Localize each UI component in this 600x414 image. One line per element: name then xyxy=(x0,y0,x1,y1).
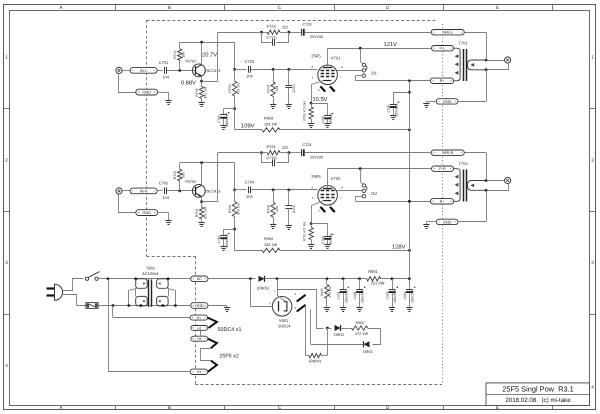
connector NFB-R xyxy=(431,150,464,155)
svg-text:2SC1413: 2SC1413 xyxy=(205,189,221,193)
wire AC to rectifier xyxy=(208,278,256,280)
connector IN-R xyxy=(130,188,157,194)
node optional cap tap xyxy=(287,68,290,71)
svg-text:J12: J12 xyxy=(371,191,378,196)
node feedback left xyxy=(260,151,263,154)
node grid resistor tap xyxy=(272,189,275,192)
wire NFB-R to feedback network xyxy=(305,152,431,154)
svg-text:25F5: 25F5 xyxy=(311,174,321,179)
node heater feed neutral xyxy=(112,304,115,307)
wire C701 to base xyxy=(167,70,196,72)
filter rail wire xyxy=(327,278,367,280)
svg-text:R709 471 1W: R709 471 1W xyxy=(302,101,306,121)
ground below C709 xyxy=(220,125,226,127)
svg-text:20.7V: 20.7V xyxy=(202,51,217,58)
capacitor C706 35V220 (cathode bypass) xyxy=(311,223,327,225)
capacitor C901 200V100 xyxy=(343,279,345,289)
svg-text:R723: R723 xyxy=(266,24,275,28)
svg-text:(C721): (C721) xyxy=(266,36,276,40)
svg-text:200V100: 200V100 xyxy=(361,290,365,303)
node secondary top xyxy=(485,59,488,62)
svg-text:R707: R707 xyxy=(267,84,271,92)
svg-text:R710 471 1W: R710 471 1W xyxy=(302,222,306,242)
svg-text:121V: 121V xyxy=(384,41,398,48)
node C903 xyxy=(391,277,394,280)
svg-text:TR702: TR702 xyxy=(185,180,196,184)
svg-text:H3: H3 xyxy=(197,337,201,341)
svg-text:P-R: P-R xyxy=(439,167,446,171)
wire feedback to NFB drop xyxy=(218,32,262,34)
svg-text:C904: C904 xyxy=(403,291,407,299)
wire node down to supply rail xyxy=(234,109,236,130)
wire R701 top to collector row xyxy=(179,42,181,49)
fuse F901 xyxy=(86,303,98,309)
RCA input jack IN-R xyxy=(116,188,122,194)
svg-text:200WV47: 200WV47 xyxy=(225,233,229,247)
node grid resistor tap xyxy=(272,68,275,71)
wire base node up to R702 xyxy=(179,181,181,191)
wire neutral to H1 xyxy=(112,306,114,318)
wire IN-L to C701 xyxy=(157,70,163,72)
node B+ row xyxy=(408,200,411,203)
chassis ground symbol xyxy=(423,224,429,226)
ground below R704 xyxy=(198,222,204,224)
wire C703 to grid xyxy=(251,69,318,71)
svg-text:T701: T701 xyxy=(458,41,468,46)
connector GND power xyxy=(191,303,208,309)
svg-text:V901: V901 xyxy=(279,318,289,323)
svg-text:H2: H2 xyxy=(197,326,201,330)
svg-text:NFB-R: NFB-R xyxy=(442,151,454,155)
connector B+ xyxy=(430,78,453,83)
wire collector row to R706 xyxy=(234,163,236,190)
node secondary top xyxy=(485,179,488,182)
node plate row xyxy=(359,47,362,50)
svg-text:R903: R903 xyxy=(264,117,273,121)
wire jumper to B+ row xyxy=(356,196,362,198)
svg-text:222: 222 xyxy=(282,25,288,29)
diode (D905) optional xyxy=(259,276,265,282)
ground below R707 xyxy=(270,104,276,106)
V901 heater strokes xyxy=(297,295,306,302)
ground below (C02) xyxy=(286,225,292,227)
svg-text:2: 2 xyxy=(5,158,8,163)
node B+ output xyxy=(408,277,411,280)
wire GND box to ground xyxy=(158,212,169,214)
svg-text:50DC4: 50DC4 xyxy=(278,324,291,329)
speaker jack L xyxy=(505,57,511,63)
wire cathode to B+ rail xyxy=(278,279,286,302)
resistor R705 473 1W (collector load) xyxy=(232,81,236,96)
wire B+ vertical line xyxy=(409,81,411,279)
ground below R905 xyxy=(324,307,330,309)
svg-text:R902: R902 xyxy=(355,321,364,325)
T901 winding interconnect left xyxy=(134,277,137,280)
svg-text:T702: T702 xyxy=(458,161,468,166)
node coupling tap xyxy=(233,189,236,192)
node C901 xyxy=(342,277,345,280)
capacitor (C722) (parallel, optional) xyxy=(262,153,272,163)
ground below C706 xyxy=(324,244,330,246)
wire cathode xyxy=(312,81,324,104)
svg-text:R708: R708 xyxy=(267,205,271,213)
connector P-R xyxy=(432,166,454,171)
transistor TR702 2SC1413 xyxy=(192,185,205,198)
T701 secondary winding xyxy=(467,60,486,70)
svg-text:C703: C703 xyxy=(245,59,255,64)
svg-text:C701: C701 xyxy=(159,60,169,65)
wire feedback to NFB drop xyxy=(218,152,262,154)
svg-text:GND: GND xyxy=(143,211,152,215)
svg-text:C903: C903 xyxy=(385,291,389,299)
svg-text:C710: C710 xyxy=(217,235,221,243)
T901 winding interconnect right xyxy=(167,277,170,280)
svg-text:104: 104 xyxy=(162,195,169,200)
resistor R709 471 1W (cathode) xyxy=(311,103,313,107)
connector NFB-L xyxy=(431,30,464,35)
wire RCA to GND box xyxy=(119,74,136,93)
svg-text:C704: C704 xyxy=(245,180,255,185)
svg-text:GND: GND xyxy=(143,91,152,95)
capacitor C723 25V100 xyxy=(301,29,303,36)
wire C723 to R723 xyxy=(289,32,301,34)
T901 primary winding lower xyxy=(136,296,148,306)
wire speaker return xyxy=(487,63,509,70)
svg-text:TR701: TR701 xyxy=(185,59,196,63)
svg-text:C709: C709 xyxy=(217,115,221,123)
resistor R723 222 (feedback) xyxy=(261,32,267,34)
svg-text:C702: C702 xyxy=(159,181,169,186)
svg-text:R904: R904 xyxy=(264,237,273,241)
RCA input jack IN-L xyxy=(116,67,122,73)
svg-text:200V100: 200V100 xyxy=(344,290,348,303)
wire plug to fuse xyxy=(63,295,86,306)
node R905 xyxy=(326,277,329,280)
node coupling tap xyxy=(233,68,236,71)
svg-text:C902: C902 xyxy=(353,291,357,299)
wire secondary to GND connector xyxy=(486,190,488,222)
svg-text:R705: R705 xyxy=(228,84,232,92)
wire heater pin3 down xyxy=(305,305,307,355)
supply rail wire with R904 xyxy=(235,250,262,252)
resistor R703 471 1W xyxy=(199,87,203,99)
svg-text:25V100: 25V100 xyxy=(310,156,323,160)
ground below C902 xyxy=(356,307,362,309)
svg-text:T901: T901 xyxy=(146,265,156,270)
capacitor C905 200V100 xyxy=(390,104,397,106)
svg-text:R702: R702 xyxy=(173,171,177,179)
svg-text:R701: R701 xyxy=(173,50,177,58)
svg-text:AC: AC xyxy=(197,277,203,281)
wire NFB to emitter xyxy=(217,153,219,202)
T901 secondary winding lower xyxy=(157,296,169,306)
chassis ground symbol xyxy=(423,103,429,105)
node C902 xyxy=(358,277,361,280)
wire NFB-L tap xyxy=(464,32,486,34)
wire base node up to R701 xyxy=(179,60,181,70)
input ground symbol xyxy=(165,100,171,102)
resistor R702 395 xyxy=(178,169,182,181)
node secondary bottom xyxy=(485,189,488,192)
svg-text:50DC4 x1: 50DC4 x1 xyxy=(218,327,242,333)
svg-text:R905: R905 xyxy=(320,288,324,296)
svg-text:R901: R901 xyxy=(368,269,378,274)
svg-text:103 1W: 103 1W xyxy=(264,123,278,127)
supply rail wire with R903 xyxy=(235,129,262,131)
svg-text:B+: B+ xyxy=(440,200,446,204)
svg-text:GND: GND xyxy=(443,100,452,104)
resistor R902 472 1W xyxy=(341,328,352,330)
svg-text:(C722): (C722) xyxy=(266,156,276,160)
wire secondary top to speaker xyxy=(486,180,505,182)
svg-text:R703: R703 xyxy=(195,88,199,96)
vacuum tube V702 25F5 xyxy=(318,186,338,206)
svg-text:128V: 128V xyxy=(392,243,406,250)
capacitor (C02) (optional) xyxy=(288,190,290,206)
wire R702 top to collector row xyxy=(179,163,181,170)
svg-text:222: 222 xyxy=(282,146,288,150)
resistor R704 471 1W xyxy=(199,207,203,219)
connector H3 xyxy=(191,336,208,341)
wire node to C710 xyxy=(224,229,235,231)
wire NFB-L to feedback network xyxy=(305,32,431,34)
svg-text:10.5V: 10.5V xyxy=(312,96,327,103)
svg-text:GND: GND xyxy=(195,304,204,308)
svg-text:473 1W: 473 1W xyxy=(236,82,240,94)
input ground connector GND R xyxy=(136,210,158,216)
wire switch to T901 xyxy=(98,278,191,280)
svg-text:V701: V701 xyxy=(331,55,341,60)
capacitor C904 200V100 xyxy=(409,279,411,289)
svg-text:C901: C901 xyxy=(337,291,341,299)
wire to C905 xyxy=(393,92,409,94)
ground below C905 xyxy=(390,115,396,117)
node base junction xyxy=(178,190,181,193)
power switch SW901 xyxy=(85,277,88,280)
svg-text:2018.02.08. (c) mi-take: 2018.02.08. (c) mi-take xyxy=(505,397,571,404)
board boundary dashed outline xyxy=(146,20,437,22)
node plate row xyxy=(359,167,362,170)
svg-text:224: 224 xyxy=(275,86,279,92)
svg-text:NFB-L: NFB-L xyxy=(442,31,453,35)
jumper J12 xyxy=(360,169,362,182)
wire speaker return xyxy=(487,184,509,191)
resistor (R904) optional xyxy=(306,355,309,357)
wire plate row to P connector xyxy=(328,168,431,170)
svg-text:25V100: 25V100 xyxy=(310,35,323,39)
connector IN-L xyxy=(130,68,157,74)
svg-text:224: 224 xyxy=(275,206,279,212)
wire R901 to output node xyxy=(381,278,410,280)
T702 secondary winding xyxy=(467,181,486,191)
wire NFB-R tap xyxy=(464,152,486,154)
svg-text:4: 4 xyxy=(591,385,594,390)
capacitor C902 200V100 xyxy=(359,279,361,289)
capacitor C710 200WV47 xyxy=(220,235,227,237)
connector GND amp L xyxy=(436,99,458,104)
wire H2 to H3 link xyxy=(200,330,202,336)
node B+ C905 tap xyxy=(408,91,411,94)
svg-text:H4: H4 xyxy=(197,370,201,374)
svg-text:(D905): (D905) xyxy=(257,285,270,290)
svg-text:1: 1 xyxy=(5,55,8,60)
wire GND connector to chassis xyxy=(427,221,437,223)
node supply decoupling xyxy=(233,107,236,110)
node supply decoupling xyxy=(233,228,236,231)
node collector top xyxy=(200,161,203,164)
AC plug xyxy=(55,284,63,300)
wire cathode xyxy=(312,201,324,224)
svg-text:200V100: 200V100 xyxy=(394,104,398,117)
svg-text:C705: C705 xyxy=(321,116,325,124)
svg-text:P-L: P-L xyxy=(440,47,446,51)
svg-text:(R904): (R904) xyxy=(309,358,322,363)
svg-text:R724: R724 xyxy=(266,145,275,149)
svg-text:C905: C905 xyxy=(387,104,391,112)
resistor R903 103 1W xyxy=(262,128,280,132)
node bias junction xyxy=(326,327,329,330)
ground below R708 xyxy=(270,224,276,226)
wire screen to jumper J12 xyxy=(337,190,362,192)
ground below (C01) xyxy=(286,104,292,106)
transistor TR701 2SC1413 xyxy=(192,64,205,77)
node emitter xyxy=(200,80,203,83)
wire secondary top to speaker xyxy=(486,60,505,62)
svg-text:(C01): (C01) xyxy=(292,84,296,92)
wire hot to H4 xyxy=(108,279,110,372)
svg-text:200V100: 200V100 xyxy=(411,290,415,303)
T901 primary winding upper xyxy=(136,279,148,289)
node cathode xyxy=(310,222,313,225)
capacitor C724 25V100 xyxy=(301,149,303,156)
svg-text:0.88V: 0.88V xyxy=(181,79,196,86)
capacitor C903 200V100 xyxy=(392,279,394,289)
svg-text:395: 395 xyxy=(182,52,186,58)
resistor R707 224 (grid leak) xyxy=(273,69,275,82)
connector B+ xyxy=(430,199,453,204)
wire GND to chassis xyxy=(208,305,227,307)
svg-text:D901: D901 xyxy=(363,349,373,354)
svg-text:35V220: 35V220 xyxy=(329,113,333,124)
svg-text:4: 4 xyxy=(5,363,8,368)
capacitor C702 104 xyxy=(164,188,166,195)
power ground symbol xyxy=(224,307,230,309)
wire screen to jumper J11 xyxy=(337,70,362,72)
node heater feed hot xyxy=(107,277,110,280)
node secondary bottom xyxy=(485,68,488,71)
node emitter xyxy=(200,200,203,203)
svg-text:25F5 Singl Pow R3.1: 25F5 Singl Pow R3.1 xyxy=(502,384,573,393)
svg-text:R706: R706 xyxy=(228,205,232,213)
ground below C705 xyxy=(324,123,330,125)
node B+ row xyxy=(408,79,411,82)
wire fuse to T901 xyxy=(98,305,191,307)
wire jumper to B+ row xyxy=(356,75,362,77)
svg-text:B: B xyxy=(168,5,171,10)
connector GND amp R xyxy=(436,219,458,224)
svg-text:25F5: 25F5 xyxy=(311,53,321,58)
svg-text:395: 395 xyxy=(182,172,186,178)
svg-text:221 3W: 221 3W xyxy=(371,281,385,286)
wire C724 to R724 xyxy=(289,152,301,154)
resistor R905 473 1W (bleeder) xyxy=(325,285,329,299)
connector H4 xyxy=(190,369,208,374)
node B+ right channel xyxy=(408,200,411,203)
connector H2 xyxy=(191,326,208,331)
capacitor C704 104 (coupling) xyxy=(248,187,250,194)
wire GND connector to chassis xyxy=(427,101,437,103)
svg-text:104: 104 xyxy=(246,74,253,79)
ground below C904 xyxy=(406,307,412,309)
speaker jack R xyxy=(505,177,511,183)
T901 secondary winding upper xyxy=(157,279,169,289)
node feedback right xyxy=(287,151,290,154)
resistor R708 224 (grid leak) xyxy=(273,190,275,203)
svg-text:103 1W: 103 1W xyxy=(264,243,278,247)
svg-text:D903: D903 xyxy=(334,332,344,337)
ground below R709 xyxy=(308,123,314,125)
node optional cap tap xyxy=(287,189,290,192)
svg-text:B: B xyxy=(168,405,171,410)
resistor R901 221 3W xyxy=(367,277,381,281)
wire heater pin4 to bias network xyxy=(278,290,324,329)
capacitor C703 104 (coupling) xyxy=(248,66,250,73)
heater 25F5 x2 xyxy=(208,339,217,349)
node cathode xyxy=(310,102,313,105)
wire RCA to GND box xyxy=(119,195,136,213)
capacitor C709 200WV47 xyxy=(220,114,227,116)
svg-text:IN-R: IN-R xyxy=(140,189,148,193)
wire C704 to grid xyxy=(251,189,318,191)
rectifier tube V901 50DC4 xyxy=(272,297,292,317)
svg-text:25F5 x2: 25F5 x2 xyxy=(219,354,238,360)
node feedback left xyxy=(260,31,263,34)
svg-text:2: 2 xyxy=(591,158,594,163)
wire secondary to GND connector xyxy=(486,70,488,102)
wire plate lead xyxy=(327,48,329,67)
capacitor C705 35V220 (cathode bypass) xyxy=(311,103,327,105)
svg-text:E: E xyxy=(496,5,499,10)
svg-text:IN-L: IN-L xyxy=(140,69,147,73)
wire rail to B+ line xyxy=(280,250,409,252)
jumper J11 xyxy=(360,48,362,61)
svg-text:AC100v4: AC100v4 xyxy=(142,271,159,276)
wire node to C709 xyxy=(224,108,235,110)
wire C702 to base xyxy=(167,190,196,192)
resistor R904 103 1W xyxy=(262,248,280,252)
node rail B+ xyxy=(408,129,411,132)
svg-text:109V: 109V xyxy=(241,122,255,129)
svg-text:H1: H1 xyxy=(197,316,201,320)
svg-text:104: 104 xyxy=(162,74,169,79)
svg-text:(C02): (C02) xyxy=(292,205,296,213)
capacitor (C01) (optional) xyxy=(288,69,290,85)
svg-text:B+: B+ xyxy=(440,79,446,83)
wire node down to supply rail xyxy=(234,229,236,250)
svg-text:GND: GND xyxy=(443,220,452,224)
svg-text:2SC1413: 2SC1413 xyxy=(205,69,221,73)
svg-text:471 1W: 471 1W xyxy=(203,86,207,98)
svg-text:473 1W: 473 1W xyxy=(328,287,332,298)
node rectifier anode tap xyxy=(249,277,252,280)
svg-text:3: 3 xyxy=(5,260,8,265)
resistor R701 395 xyxy=(178,49,182,61)
wire plate row to P connector xyxy=(328,48,431,50)
wire coupling tap to C703 xyxy=(235,69,247,71)
diode D903 xyxy=(327,328,331,330)
svg-text:200WV47: 200WV47 xyxy=(225,113,229,127)
svg-text:V702: V702 xyxy=(331,176,341,181)
